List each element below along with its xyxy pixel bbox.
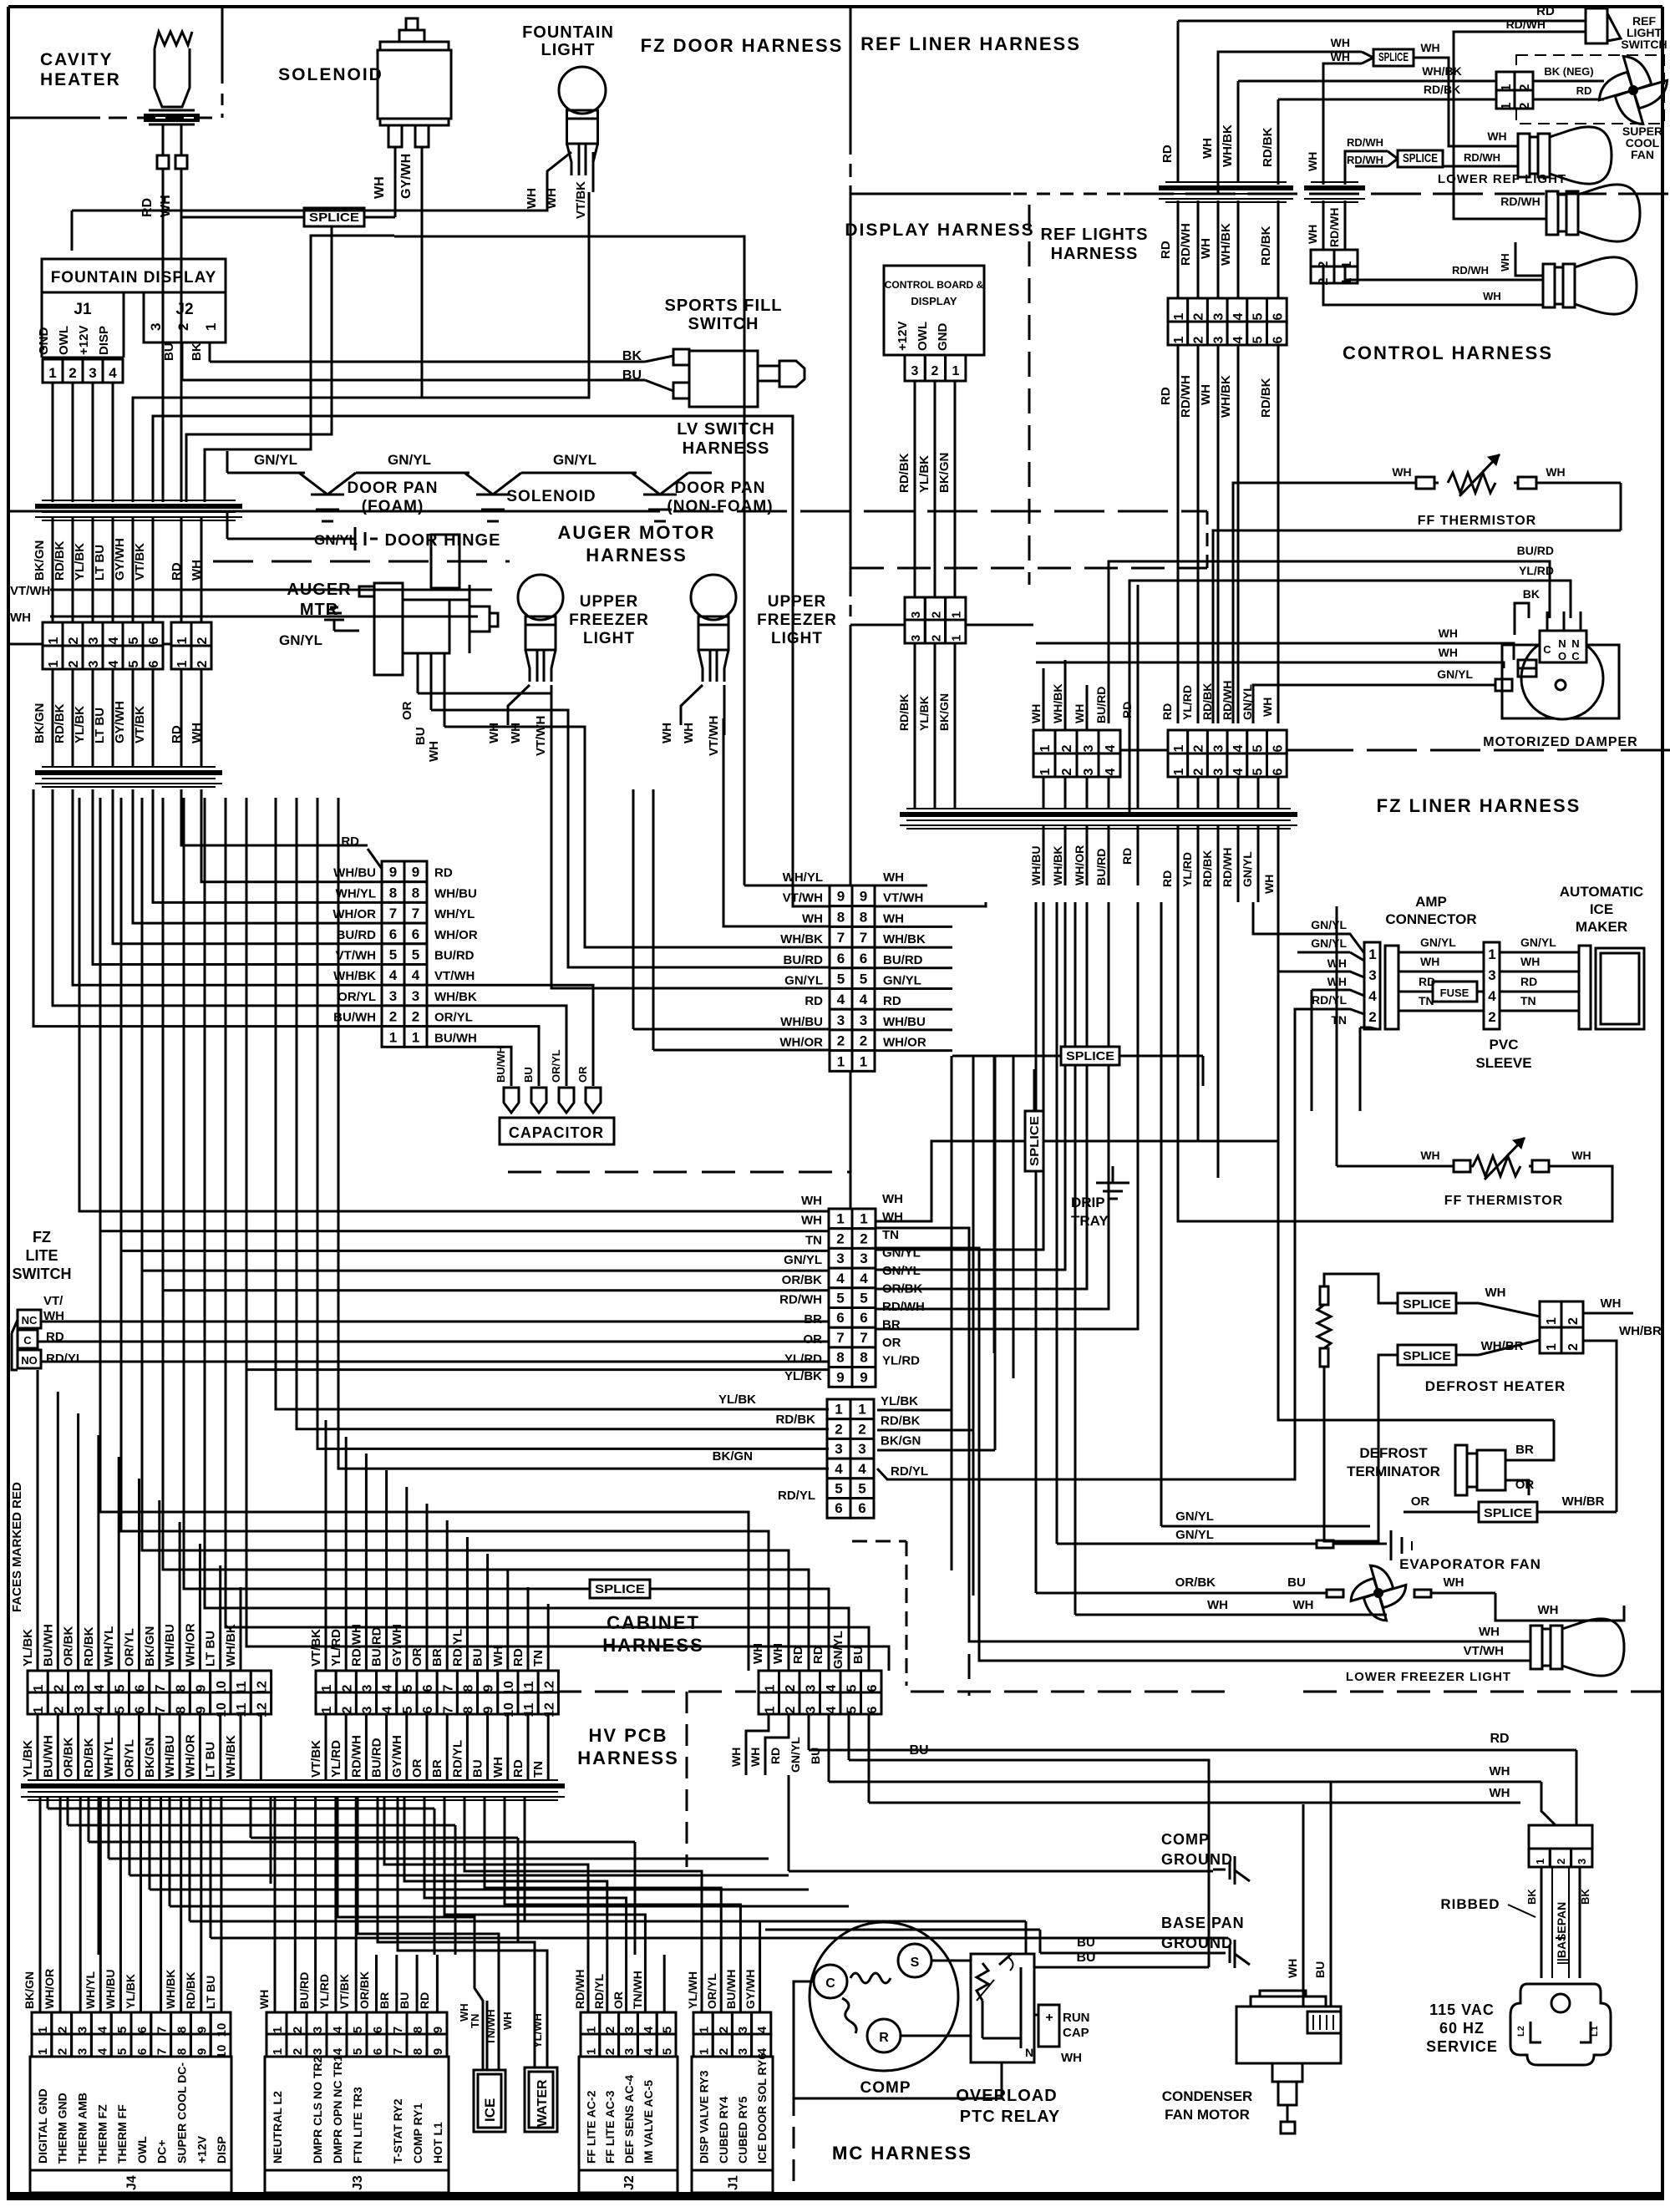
svg-text:BK: BK (1579, 1889, 1591, 1905)
connector A right labels (434, 866, 478, 1046)
svg-text:WH: WH (802, 911, 823, 926)
J2 connector block (579, 2012, 678, 2193)
svg-text:HEATER: HEATER (40, 70, 121, 89)
svg-text:1: 1 (1545, 1317, 1559, 1325)
svg-text:SPLICE: SPLICE (1028, 1116, 1042, 1166)
svg-text:1: 1 (860, 1053, 867, 1069)
svg-text:1: 1 (952, 364, 960, 378)
wire WH rail2 to splice2 (1323, 50, 1362, 185)
compressor COMP (810, 1922, 958, 2071)
svg-text:BU/RD: BU/RD (370, 1626, 384, 1667)
auger motor symbol (359, 535, 498, 675)
wire base pan ground (765, 1930, 1213, 1953)
svg-text:WH: WH (1262, 875, 1276, 894)
svg-text:CAVITY: CAVITY (40, 50, 113, 69)
svg-text:WH/BK: WH/BK (1051, 846, 1064, 885)
svg-text:4: 4 (331, 2026, 345, 2033)
wire WH fountain down-left (71, 211, 74, 251)
svg-text:4: 4 (93, 1706, 107, 1713)
splice S4 vertical (1025, 1111, 1043, 1171)
svg-text:DISPLAY: DISPLAY (911, 295, 957, 307)
svg-text:RD: RD (1490, 1732, 1509, 1746)
svg-text:WH/OR: WH/OR (779, 1036, 823, 1050)
svg-text:CONTROL BOARD &: CONTROL BOARD & (885, 279, 984, 291)
svg-text:2: 2 (1192, 312, 1206, 320)
wire BK NEG fan (1533, 65, 1604, 81)
svg-text:CUBED RY5: CUBED RY5 (736, 2096, 749, 2164)
solenoid leads (395, 147, 422, 200)
svg-text:YL/RD: YL/RD (1519, 564, 1554, 577)
label HV PCB HARNESS (577, 1725, 679, 1768)
svg-text:2: 2 (860, 1230, 867, 1246)
J3 top labels (257, 1971, 431, 2009)
wire WH plug 1 (829, 1764, 1556, 1825)
svg-text:GN/YL: GN/YL (1311, 918, 1347, 931)
connector 6pin left (43, 622, 163, 669)
svg-text:OR: OR (576, 1066, 589, 1083)
svg-text:1: 1 (320, 1684, 334, 1692)
svg-text:WH/BK: WH/BK (1219, 375, 1233, 418)
svg-text:3: 3 (311, 2027, 325, 2033)
label GN/YL x3 (254, 452, 596, 468)
svg-text:DRIP: DRIP (1071, 1195, 1105, 1210)
svg-text:(NON-FOAM): (NON-FOAM) (667, 498, 773, 515)
svg-text:WH/BK: WH/BK (224, 1624, 238, 1667)
svg-text:2: 2 (195, 637, 210, 644)
svg-text:J1: J1 (74, 301, 92, 318)
label CONDENSER FAN MOTOR (1162, 2088, 1253, 2123)
svg-text:WH: WH (883, 911, 904, 926)
svg-text:OR/YL: OR/YL (550, 1049, 562, 1083)
svg-text:BU: BU (471, 1648, 485, 1667)
svg-text:NC: NC (22, 1314, 38, 1327)
svg-text:1: 1 (836, 1211, 844, 1227)
svg-text:8: 8 (174, 1684, 188, 1692)
svg-text:5: 5 (1251, 336, 1266, 343)
svg-text:BR: BR (1515, 1443, 1534, 1457)
svg-text:3: 3 (73, 1706, 87, 1713)
svg-text:4: 4 (381, 1706, 395, 1713)
svg-text:WH/OR: WH/OR (183, 1623, 197, 1667)
label CONTROL HARNESS (1343, 342, 1553, 363)
divider y748 stubs (850, 624, 1033, 627)
labels RD/BK YL/BK BK/GN display (897, 453, 952, 493)
svg-text:VT/WH: VT/WH (883, 891, 923, 906)
wire fz switch C (38, 1341, 829, 1343)
label WH RD/WH small bus (1306, 152, 1341, 247)
svg-text:RD/WH: RD/WH (1347, 136, 1383, 149)
svg-text:BU/RD: BU/RD (1517, 544, 1554, 557)
wire RD to ref light switch (1178, 4, 1586, 21)
svg-text:RUN: RUN (1063, 2011, 1090, 2025)
svg-text:NEUTRAL L2: NEUTRAL L2 (271, 2091, 284, 2164)
svg-text:AMP: AMP (1415, 894, 1447, 910)
svg-text:WH/BK: WH/BK (333, 969, 376, 983)
ICE WATER labels (458, 2003, 544, 2048)
svg-text:CAP: CAP (1063, 2026, 1089, 2040)
svg-text:GY/WH: GY/WH (390, 1624, 404, 1667)
svg-text:WH/BU: WH/BU (333, 866, 376, 880)
svg-text:BR: BR (378, 1992, 391, 2009)
connector pair C 9pin (830, 885, 875, 1071)
svg-text:5: 5 (351, 2027, 365, 2033)
svg-text:TERMINATOR: TERMINATOR (1347, 1464, 1440, 1479)
svg-text:C: C (1543, 643, 1551, 656)
svg-text:5: 5 (115, 2027, 129, 2033)
splice S8 (1479, 1502, 1537, 1522)
svg-text:6: 6 (371, 2027, 385, 2033)
ff thermistor 1 circuit (1213, 477, 1621, 723)
J4 top labels (23, 1969, 217, 2009)
wire RD cavity down (162, 219, 165, 502)
svg-text:RD: RD (883, 994, 901, 1008)
J2 top labels (573, 1970, 644, 2009)
svg-text:10: 10 (502, 1702, 516, 1717)
svg-text:TN: TN (469, 2014, 481, 2028)
svg-text:RD/WH: RD/WH (1347, 154, 1383, 166)
svg-text:BU/RD: BU/RD (1094, 849, 1108, 885)
svg-text:TN: TN (805, 1233, 822, 1247)
svg-text:WH/YL: WH/YL (84, 1971, 97, 2009)
svg-text:DC+: DC+ (155, 2140, 169, 2164)
svg-text:1: 1 (47, 637, 61, 644)
svg-text:T-STAT RY2: T-STAT RY2 (391, 2098, 404, 2164)
svg-text:4: 4 (1231, 744, 1246, 752)
svg-text:1: 1 (763, 1684, 777, 1692)
divider dashed x822 bottom (686, 1692, 688, 1867)
svg-text:3: 3 (1488, 967, 1495, 983)
svg-text:6: 6 (1271, 768, 1285, 775)
svg-text:3: 3 (148, 323, 164, 331)
wires conn down to bus2 (53, 669, 201, 767)
label SOLENOID (278, 65, 383, 84)
connector cabinet right 12pin (316, 1671, 558, 1717)
ff thermistor 2 element (1473, 1138, 1525, 1180)
wire fz switch NO (41, 1361, 829, 1363)
label OR BU WH auger (400, 701, 441, 762)
svg-text:RD: RD (1120, 848, 1134, 865)
wire WH damper 1 (1036, 627, 1514, 660)
svg-text:3: 3 (1211, 336, 1226, 343)
svg-text:WH: WH (682, 723, 696, 743)
svg-text:R: R (879, 2031, 889, 2045)
svg-text:FF THERMISTOR: FF THERMISTOR (1444, 1194, 1563, 1208)
svg-text:8: 8 (174, 1706, 188, 1713)
svg-text:OWL: OWL (57, 326, 71, 355)
label DRIP TRAY (1071, 1195, 1109, 1229)
wire RD/WH to ref light switch (1454, 18, 1586, 166)
labels below cabinet conn right (309, 1735, 546, 1778)
svg-text:OR: OR (1411, 1494, 1430, 1509)
wire comp R to relay (901, 2035, 971, 2037)
svg-text:1: 1 (36, 2027, 50, 2033)
ref light switch symbol (1586, 8, 1621, 43)
svg-text:2: 2 (1555, 1859, 1567, 1864)
J1 top labels (686, 1970, 757, 2009)
divider vertical display harness x1232 (1028, 205, 1031, 585)
label WH GY/WH solenoid (373, 154, 414, 199)
wires ref bus down to conn6 (1178, 200, 1278, 298)
svg-text:4: 4 (381, 1684, 395, 1692)
svg-text:1: 1 (1172, 336, 1186, 343)
svg-text:FACES MARKED RED: FACES MARKED RED (10, 1482, 24, 1612)
svg-text:DEF SENS AC-4: DEF SENS AC-4 (622, 2075, 636, 2164)
svg-text:RD: RD (511, 1648, 525, 1667)
label LOWER REF LIGHT (1438, 172, 1566, 186)
svg-text:RD/YL: RD/YL (592, 1974, 606, 2009)
svg-text:BU/WH: BU/WH (333, 1011, 376, 1025)
svg-text:UPPER: UPPER (768, 593, 826, 611)
wire rail y498 to center (153, 416, 793, 885)
svg-text:THERM FF: THERM FF (115, 2104, 129, 2164)
svg-text:YL/BK: YL/BK (881, 1394, 918, 1408)
label MC HARNESS (832, 2143, 972, 2164)
svg-text:1: 1 (950, 635, 964, 642)
svg-text:12: 12 (255, 1702, 269, 1717)
svg-text:1: 1 (584, 2048, 598, 2055)
label WH thermistor1 (1392, 465, 1565, 479)
svg-text:OVERLOAD: OVERLOAD (956, 2087, 1057, 2105)
svg-text:RD: RD (418, 1992, 431, 2009)
wire WH splice-down rail y520 (186, 226, 332, 502)
svg-text:4: 4 (1488, 988, 1496, 1004)
svg-text:1: 1 (1545, 1343, 1559, 1351)
svg-text:4: 4 (412, 967, 420, 983)
wire WH/BR defrost (1456, 1339, 1540, 1355)
svg-text:9: 9 (860, 889, 867, 905)
pvc connector 2 (1484, 942, 1500, 1029)
svg-text:2: 2 (929, 611, 943, 618)
svg-text:SLEEVE: SLEEVE (1475, 1055, 1531, 1071)
svg-text:5: 5 (837, 972, 845, 987)
svg-text:WH: WH (1392, 465, 1411, 479)
svg-text:2: 2 (175, 323, 191, 331)
svg-text:ICE DOOR SOL RY6: ICE DOOR SOL RY6 (755, 2053, 769, 2164)
label MOTORIZED DAMPER (1483, 735, 1637, 749)
svg-text:1: 1 (1368, 946, 1376, 962)
svg-text:3: 3 (736, 2027, 750, 2033)
svg-text:FZ DOOR HARNESS: FZ DOOR HARNESS (641, 35, 844, 56)
svg-text:WH: WH (801, 1214, 822, 1228)
svg-text:LT BU: LT BU (93, 708, 107, 743)
svg-text:ICE: ICE (1590, 901, 1613, 917)
wire BU relay (1034, 1951, 1209, 1967)
condenser fan motor (1236, 1991, 1341, 2133)
ICE box (474, 2070, 505, 2132)
auger ground (279, 607, 359, 648)
wire fountain WH long (72, 192, 547, 211)
WATER box (525, 2067, 557, 2132)
connector B6 right labels (881, 1394, 928, 1479)
svg-text:RD: RD (1160, 145, 1175, 163)
label wires under conn 6pin (33, 701, 204, 743)
svg-text:J2: J2 (175, 301, 193, 318)
svg-text:2: 2 (195, 660, 210, 667)
divider dashed y1403 mid-left (508, 1171, 850, 1174)
HV PCB pin labels (729, 1737, 822, 1773)
svg-text:WH/BR: WH/BR (1619, 1324, 1662, 1338)
svg-text:RD/YL: RD/YL (46, 1352, 84, 1366)
sports fill switch (673, 349, 805, 407)
fuse (1433, 982, 1477, 1002)
svg-text:BK/GN: BK/GN (143, 1626, 157, 1667)
svg-text:COMP: COMP (1161, 1831, 1210, 1848)
svg-text:WH: WH (1485, 1286, 1506, 1300)
svg-text:WH/OR: WH/OR (183, 1734, 197, 1778)
svg-text:YL/BK: YL/BK (21, 1629, 35, 1667)
svg-text:RD/WH: RD/WH (1464, 151, 1500, 164)
label BK BU switch (622, 349, 642, 383)
svg-text:3: 3 (361, 1706, 375, 1713)
upper freezer light 2 (691, 575, 736, 682)
svg-text:1: 1 (1488, 946, 1495, 962)
svg-text:PVC: PVC (1490, 1037, 1519, 1053)
svg-text:FF THERMISTOR: FF THERMISTOR (1418, 514, 1536, 528)
svg-text:WH: WH (1444, 1575, 1464, 1590)
svg-text:4: 4 (642, 2026, 656, 2033)
wires small bus to 2pin (1323, 200, 1345, 250)
wire BK damper (1515, 587, 1540, 635)
ICE WATER wires (338, 1796, 547, 2070)
relay internals (977, 1953, 1021, 2048)
svg-text:8: 8 (411, 2027, 425, 2033)
long verticals mid-right (952, 1056, 1013, 1596)
svg-text:OR/BK: OR/BK (358, 1971, 371, 2009)
svg-text:SPLICE: SPLICE (1403, 1349, 1451, 1363)
svg-text:BU: BU (414, 727, 428, 745)
wires conn4 verticals (1043, 660, 1109, 885)
svg-text:RD: RD (140, 198, 155, 217)
svg-text:YL/RD: YL/RD (784, 1352, 822, 1367)
svg-text:HARNESS: HARNESS (683, 439, 770, 458)
svg-text:3: 3 (389, 988, 397, 1004)
label FOUNTAIN LIGHT (522, 23, 614, 59)
svg-text:SPLICE: SPLICE (595, 1582, 645, 1596)
svg-text:BR: BR (430, 1648, 444, 1667)
svg-text:4: 4 (331, 2047, 345, 2055)
svg-text:1: 1 (763, 1706, 777, 1713)
svg-text:4: 4 (837, 992, 845, 1007)
svg-text:DISPLAY HARNESS: DISPLAY HARNESS (845, 221, 1034, 240)
svg-text:DOOR PAN: DOOR PAN (348, 479, 439, 497)
icemaker feed wires (1253, 685, 1377, 1111)
svg-text:RD: RD (791, 1646, 805, 1664)
svg-text:FF LITE AC-2: FF LITE AC-2 (584, 2090, 597, 2164)
svg-text:VT/: VT/ (43, 1294, 63, 1308)
svg-text:3: 3 (1211, 744, 1226, 752)
svg-text:1: 1 (320, 1706, 334, 1713)
label PVC SLEEVE (1475, 1037, 1531, 1071)
svg-text:WH/OR: WH/OR (1073, 845, 1086, 885)
svg-text:6: 6 (421, 1684, 435, 1692)
wire RD plug (809, 1732, 1576, 1825)
bus bundle top-left (35, 500, 242, 520)
divider horizontal y612 FZ DOOR bottom (8, 510, 1207, 513)
svg-text:WH: WH (525, 188, 539, 209)
svg-text:WH: WH (660, 723, 674, 743)
svg-text:GN/YL: GN/YL (1175, 1509, 1214, 1524)
label FZ LINER HARNESS (1377, 795, 1581, 816)
svg-text:BU: BU (1287, 1575, 1306, 1590)
label 115 VAC 60 HZ SERVICE (1426, 2001, 1498, 2055)
svg-text:WH: WH (751, 1643, 765, 1664)
svg-text:9: 9 (389, 865, 397, 880)
wires out connector A right (427, 882, 744, 1086)
svg-text:WH: WH (1073, 704, 1086, 723)
svg-text:4: 4 (1104, 744, 1118, 752)
svg-text:WH: WH (257, 1990, 271, 2009)
svg-text:YL/RD: YL/RD (329, 1740, 343, 1778)
svg-text:NO: NO (21, 1354, 38, 1367)
wires cabinet conn left verticals (38, 1612, 261, 1779)
svg-text:6: 6 (865, 1706, 880, 1713)
svg-text:VT/BK: VT/BK (133, 706, 147, 743)
svg-text:TN/WH: TN/WH (631, 1971, 644, 2009)
svg-text:6: 6 (147, 660, 161, 667)
svg-text:4: 4 (835, 1461, 843, 1477)
svg-text:1: 1 (32, 1706, 46, 1713)
svg-text:8: 8 (836, 1350, 844, 1366)
connector B9 right labels (882, 1192, 925, 1368)
HV PCB pin wires (746, 1714, 1213, 1871)
svg-text:2: 2 (835, 1421, 842, 1437)
connector C left labels (779, 870, 823, 1050)
svg-text:TN: TN (1331, 1013, 1347, 1027)
svg-text:WH: WH (801, 1194, 822, 1208)
svg-text:DMPR CLS NO TR2: DMPR CLS NO TR2 (311, 2056, 324, 2164)
svg-text:WH/BU: WH/BU (104, 1970, 117, 2009)
splice S6 (1398, 1293, 1456, 1313)
basepan connector (1529, 1825, 1592, 1867)
splice S2 arrow (1362, 52, 1373, 63)
svg-text:FOUNTAIN: FOUNTAIN (522, 23, 614, 42)
labels under conn6 (1159, 375, 1273, 418)
svg-text:COMP RY1: COMP RY1 (411, 2103, 424, 2164)
label RD/WH bulb2 (1500, 195, 1540, 208)
svg-text:9: 9 (482, 1684, 496, 1692)
svg-text:1: 1 (36, 2048, 50, 2055)
svg-text:4: 4 (860, 1271, 868, 1286)
svg-text:WH: WH (1200, 138, 1215, 159)
svg-text:7: 7 (441, 1684, 455, 1692)
svg-text:THERM GND: THERM GND (56, 2093, 69, 2164)
comp ground symbol (1213, 1856, 1250, 1885)
svg-text:LT BU: LT BU (204, 1631, 218, 1667)
connector pair A 9pin (382, 861, 427, 1047)
svg-text:VT/BK: VT/BK (133, 543, 147, 581)
label FACES MARKED RED (10, 1482, 24, 1612)
svg-text:WH: WH (1520, 955, 1540, 968)
UFL2 leads (681, 685, 724, 735)
svg-text:BR: BR (430, 1759, 444, 1778)
label DEFROST HEATER (1425, 1378, 1566, 1394)
svg-text:1: 1 (412, 1029, 419, 1045)
fountain light leads (547, 152, 593, 192)
svg-text:1: 1 (175, 660, 190, 667)
svg-text:7: 7 (154, 1706, 168, 1713)
svg-text:UPPER: UPPER (580, 593, 638, 611)
svg-text:N: N (1025, 2046, 1033, 2059)
svg-text:HARNESS: HARNESS (586, 545, 688, 566)
svg-text:3: 3 (1082, 768, 1096, 775)
wire RD mid (1120, 585, 1138, 885)
label FF THERMISTOR 2 (1444, 1194, 1563, 1208)
svg-text:GY/WH: GY/WH (113, 538, 127, 581)
motorized damper (1495, 611, 1619, 719)
label SUPER COOL FAN (1622, 124, 1662, 161)
svg-text:4: 4 (109, 365, 117, 381)
svg-text:12: 12 (542, 1702, 556, 1717)
